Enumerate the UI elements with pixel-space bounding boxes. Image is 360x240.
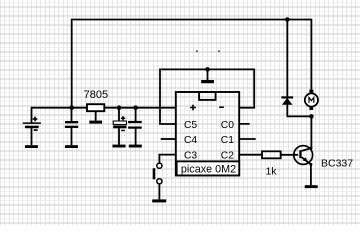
svg-text:C2: C2 [221, 150, 234, 161]
svg-text:C5: C5 [184, 120, 197, 131]
svg-text:C1: C1 [221, 135, 234, 146]
svg-text:C0: C0 [221, 120, 234, 131]
svg-text:picaxe 0M2: picaxe 0M2 [181, 163, 236, 175]
svg-text:1k: 1k [265, 166, 277, 178]
svg-text:7805: 7805 [84, 89, 108, 101]
svg-text:C3: C3 [184, 150, 197, 161]
svg-text:BC337: BC337 [321, 157, 353, 169]
svg-text:C4: C4 [184, 135, 197, 146]
